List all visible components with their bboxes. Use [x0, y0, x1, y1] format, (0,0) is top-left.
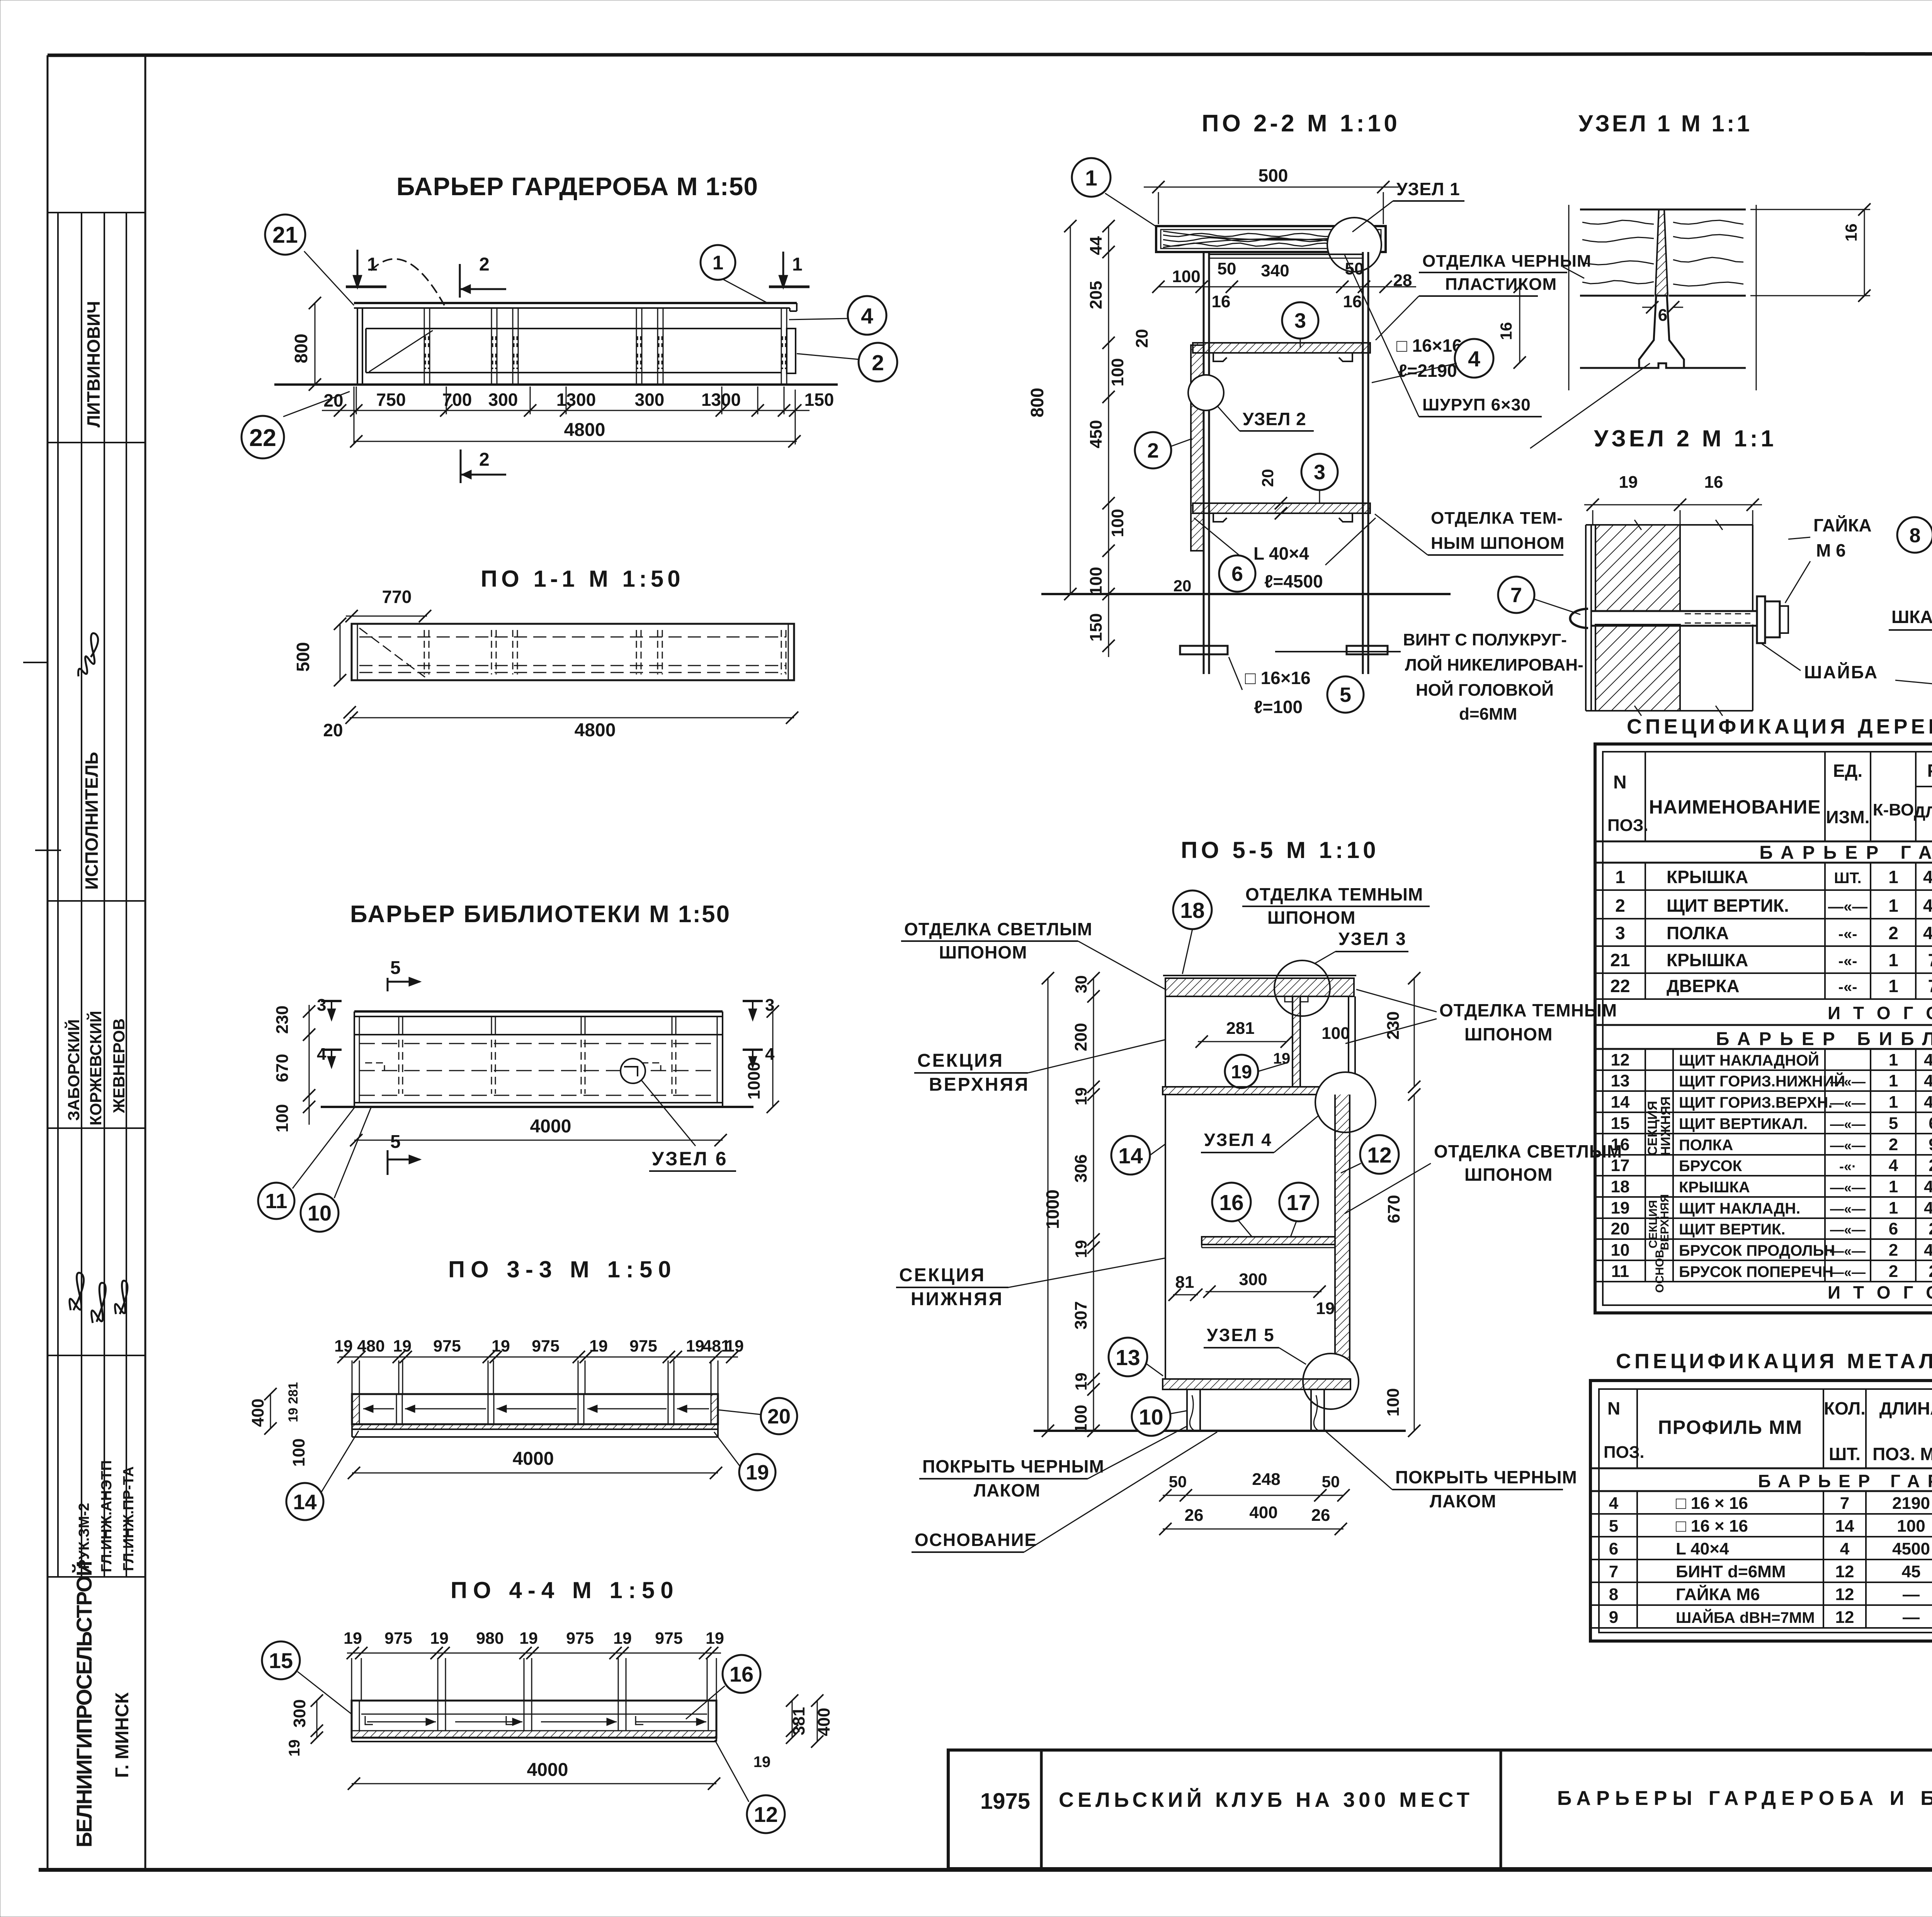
sidebar signature 1: [78, 633, 98, 676]
svg-text:300: 300: [290, 1699, 309, 1728]
svg-text:750: 750: [376, 390, 406, 410]
svg-text:ПО 2-2 М 1:10: ПО 2-2 М 1:10: [1202, 110, 1400, 137]
svg-text:100: 100: [1384, 1388, 1403, 1416]
svg-text:РАЗМЕРЫ В ММ: РАЗМЕРЫ В ММ: [1927, 761, 1932, 781]
svg-text:□ 16×16: □ 16×16: [1245, 668, 1311, 688]
svg-text:1: 1: [792, 254, 803, 275]
svg-text:—: —: [1903, 1608, 1920, 1627]
svg-text:800: 800: [1027, 388, 1047, 417]
biblio right dim 1000: [772, 1011, 774, 1107]
po22 counter grain: [1163, 233, 1379, 237]
po44 dim 4000: [352, 1783, 716, 1784]
svg-text:ВИНТ С ПОЛУКРУГ-: ВИНТ С ПОЛУКРУГ-: [1403, 630, 1567, 649]
po22 shelf 1: [1193, 343, 1370, 353]
svg-text:5: 5: [1609, 1517, 1618, 1536]
svg-text:10: 10: [1139, 1405, 1163, 1430]
svg-text:20: 20: [323, 720, 343, 740]
svg-text:2190: 2190: [1892, 1494, 1930, 1513]
po22 ground line: [1041, 593, 1451, 595]
svg-text:НИЖНЯЯ: НИЖНЯЯ: [911, 1289, 1003, 1309]
svg-text:7: 7: [1510, 584, 1522, 607]
svg-text:ЩИТ ГОРИЗ.НИЖНИЙ: ЩИТ ГОРИЗ.НИЖНИЙ: [1679, 1072, 1845, 1090]
title block divider after year: [1040, 1750, 1043, 1869]
svg-text:248: 248: [1929, 1262, 1932, 1281]
svg-text:1000: 1000: [745, 1062, 764, 1100]
svg-text:ИСПОЛНИТЕЛЬ: ИСПОЛНИТЕЛЬ: [82, 752, 102, 890]
po11 dashed posts: [424, 630, 425, 674]
po22 under counter dims: [1158, 286, 1386, 288]
biblio top band: [354, 1010, 723, 1013]
svg-text:СЕКЦИЯ: СЕКЦИЯ: [917, 1050, 1004, 1071]
svg-text:d=6ММ: d=6ММ: [1459, 705, 1517, 724]
svg-text:—«—: —«—: [1830, 1180, 1866, 1195]
svg-text:ЩИТ ВЕРТИК.: ЩИТ ВЕРТИК.: [1667, 896, 1789, 916]
svg-text:10: 10: [308, 1201, 332, 1225]
svg-text:1975: 1975: [980, 1789, 1030, 1814]
svg-text:18: 18: [1611, 1177, 1630, 1196]
garderoba section mark 2 bottom: [460, 449, 462, 483]
balloon 5 po22: [1327, 676, 1364, 713]
svg-text:400: 400: [248, 1399, 267, 1427]
svg-text:3: 3: [317, 996, 326, 1015]
svg-text:1: 1: [1889, 1199, 1898, 1217]
po55 bottom dims: [1163, 1495, 1344, 1496]
po33 extension lines: [398, 1360, 400, 1394]
uzel2 right chipboard: [1679, 525, 1681, 611]
svg-text:2: 2: [1147, 439, 1159, 462]
svg-text:975: 975: [433, 1337, 461, 1355]
svg-text:1: 1: [367, 254, 378, 275]
po11 bar outline: [352, 624, 794, 680]
svg-text:19 281: 19 281: [286, 1382, 301, 1422]
po33 posts: [396, 1394, 397, 1424]
garderoba vertical dim 800: [315, 303, 316, 385]
svg-text:4500: 4500: [1892, 1539, 1930, 1558]
svg-text:19: 19: [725, 1337, 744, 1355]
svg-text:18: 18: [1180, 898, 1204, 923]
svg-text:17: 17: [1286, 1190, 1311, 1215]
po33 end hatches: [352, 1394, 359, 1424]
wood table outer border: [1595, 744, 1932, 1313]
svg-text:16: 16: [1212, 292, 1231, 311]
svg-text:УЗЕЛ 4: УЗЕЛ 4: [1204, 1130, 1272, 1150]
svg-text:19: 19: [1072, 1240, 1090, 1258]
balloon 3 top po22: [1300, 339, 1301, 348]
uzel2 top dims: [1584, 504, 1762, 506]
svg-text:—«—: —«—: [1830, 1095, 1866, 1111]
svg-text:ГЛ.ИНЖ.ПР-ТА: ГЛ.ИНЖ.ПР-ТА: [121, 1466, 137, 1571]
svg-text:50: 50: [1218, 259, 1236, 278]
sidebar fold mark 1: [23, 662, 48, 663]
svg-text:N: N: [1607, 1398, 1620, 1418]
garderoba dim row 2 4800: [354, 441, 797, 442]
wood garderoba rows: [1595, 889, 1932, 891]
po44 brackets: [365, 1716, 373, 1725]
svg-text:КОРЖЕВСКИЙ: КОРЖЕВСКИЙ: [86, 1011, 105, 1125]
balloon 2 po22: [1171, 439, 1192, 446]
svg-text:УЗЕЛ 6: УЗЕЛ 6: [652, 1148, 728, 1170]
svg-text:СЕКЦИЯ: СЕКЦИЯ: [1645, 1101, 1660, 1156]
po22 dim 500: [1144, 187, 1399, 188]
biblio section 4 left: [321, 1049, 342, 1051]
svg-text:8: 8: [1609, 1585, 1618, 1604]
svg-text:—«—: —«—: [1830, 1264, 1866, 1280]
svg-text:4000: 4000: [1924, 1241, 1932, 1260]
svg-text:ПОЛКА: ПОЛКА: [1667, 923, 1729, 943]
po22 shelf 2: [1193, 503, 1370, 513]
po44 posts: [437, 1701, 439, 1731]
svg-text:50: 50: [1169, 1473, 1187, 1491]
svg-text:14: 14: [1835, 1517, 1854, 1536]
po55 middle box walls: [1165, 1095, 1166, 1379]
uzel1 counter bottom line: [1580, 295, 1654, 297]
svg-text:450: 450: [1087, 420, 1105, 448]
svg-text:340: 340: [1261, 261, 1289, 280]
svg-text:100: 100: [1108, 358, 1127, 386]
biblio ground line: [321, 1106, 753, 1108]
svg-text:4: 4: [1889, 1156, 1898, 1175]
svg-text:ЕД.: ЕД.: [1833, 761, 1862, 781]
svg-text:□ 16×16: □ 16×16: [1396, 335, 1462, 356]
svg-text:3: 3: [1314, 461, 1325, 484]
svg-text:21: 21: [1610, 950, 1630, 970]
svg-text:4050: 4050: [1923, 896, 1932, 916]
svg-text:9: 9: [1609, 1608, 1618, 1627]
svg-text:19: 19: [753, 1754, 771, 1771]
balloon 17 po55: [1279, 1183, 1318, 1221]
po22 left dim chain: [1108, 226, 1109, 594]
svg-text:И Т О Г О: И Т О Г О: [1828, 1282, 1932, 1302]
garderoba left wall: [357, 308, 358, 385]
svg-text:ОТДЕЛКА ТЕМНЫМ: ОТДЕЛКА ТЕМНЫМ: [1439, 1000, 1617, 1020]
balloon 18 po55: [1173, 890, 1212, 929]
svg-text:20: 20: [1133, 329, 1151, 348]
balloon 10 po55: [1132, 1397, 1170, 1436]
svg-text:4: 4: [317, 1045, 327, 1064]
po33 bottom board: [352, 1428, 718, 1430]
po11 dim 770: [346, 616, 427, 617]
sheet top border: [48, 53, 1932, 55]
svg-text:ЛОЙ НИКЕЛИРОВАН-: ЛОЙ НИКЕЛИРОВАН-: [1405, 655, 1583, 674]
svg-text:НЫМ ШПОНОМ: НЫМ ШПОНОМ: [1431, 534, 1565, 553]
svg-text:19: 19: [746, 1461, 769, 1484]
svg-text:670: 670: [273, 1054, 292, 1082]
svg-text:975: 975: [655, 1629, 683, 1648]
uzel3 ring po55: [1274, 960, 1330, 1016]
svg-text:СЕЛЬСКИЙ КЛУБ НА 300 МЕСТ: СЕЛЬСКИЙ КЛУБ НА 300 МЕСТ: [1059, 1788, 1473, 1811]
svg-text:14: 14: [1118, 1144, 1143, 1168]
sheet bottom border: [39, 1868, 1932, 1872]
svg-text:12: 12: [1835, 1562, 1854, 1581]
svg-text:13: 13: [1611, 1071, 1630, 1090]
biblio dim 4000: [354, 1140, 723, 1141]
svg-text:500: 500: [1259, 165, 1288, 186]
uzel1 bottom line: [1580, 367, 1638, 369]
svg-text:БРУСОК ПРОДОЛЬН: БРУСОК ПРОДОЛЬН: [1679, 1242, 1835, 1259]
balloon 16 po55: [1212, 1183, 1251, 1221]
balloon 22: [283, 392, 350, 417]
po55 legs: [1186, 1389, 1188, 1431]
po11 dim 4800: [350, 717, 794, 718]
svg-text:19: 19: [1316, 1299, 1335, 1318]
svg-text:БЕЛНИИГИПРОСЕЛЬСТРОЙ: БЕЛНИИГИПРОСЕЛЬСТРОЙ: [72, 1561, 96, 1847]
svg-text:100: 100: [1321, 1024, 1350, 1043]
po33 dim 4000: [352, 1473, 718, 1474]
po33 dim row: [339, 1357, 738, 1358]
po44 arrows: [367, 1721, 436, 1723]
balloon 4 right: [789, 318, 849, 320]
svg-text:ГАЙКА: ГАЙКА: [1813, 515, 1872, 535]
svg-text:12: 12: [1835, 1608, 1854, 1627]
balloon 15 po44: [298, 1672, 352, 1714]
balloon 14 po33: [321, 1431, 359, 1492]
svg-text:81: 81: [1175, 1273, 1194, 1292]
po22 dim16 right: [1519, 287, 1520, 363]
svg-text:—«—: —«—: [1828, 898, 1867, 915]
svg-text:ШАЙБА dВН=7ММ: ШАЙБА dВН=7ММ: [1676, 1609, 1815, 1626]
uzel4 ring po55: [1315, 1072, 1376, 1132]
svg-text:22: 22: [249, 424, 276, 451]
svg-text:13: 13: [1116, 1345, 1140, 1370]
svg-text:ПОЛКА: ПОЛКА: [1679, 1137, 1733, 1154]
svg-text:200: 200: [1071, 1023, 1090, 1051]
svg-text:500: 500: [293, 642, 313, 672]
balloon 14 po55: [1111, 1136, 1150, 1175]
po55 ground line: [1034, 1430, 1406, 1432]
po33 left dims: [270, 1394, 271, 1428]
garderoba panel diagonal leader: [369, 330, 433, 372]
balloon 13 po55: [1109, 1338, 1147, 1376]
svg-text:N: N: [1613, 772, 1627, 793]
svg-text:16: 16: [1611, 1135, 1630, 1154]
svg-text:14: 14: [293, 1490, 317, 1514]
po33 arrows: [363, 1408, 394, 1410]
svg-text:44: 44: [1087, 236, 1105, 255]
garderoba counter top: [354, 302, 797, 304]
svg-text:ℓ=100: ℓ=100: [1254, 697, 1303, 717]
sidebar signature 4: [115, 1280, 128, 1314]
svg-text:100: 100: [1087, 567, 1105, 595]
po44 hatched strip: [352, 1731, 716, 1738]
svg-text:ЩИТ ВЕРТИК.: ЩИТ ВЕРТИК.: [1679, 1221, 1786, 1238]
sidebar signature 2: [70, 1273, 84, 1310]
svg-text:ОТДЕЛКА ТЕМНЫМ: ОТДЕЛКА ТЕМНЫМ: [1245, 884, 1423, 904]
svg-text:4: 4: [861, 304, 873, 329]
balloon 21: [304, 251, 354, 305]
svg-text:—«—: —«—: [1830, 1137, 1866, 1153]
svg-text:ШПОНОМ: ШПОНОМ: [1464, 1024, 1553, 1044]
uzel2 bolt head: [1570, 609, 1588, 628]
svg-text:2: 2: [1615, 896, 1625, 916]
svg-text:УЗЕЛ 2: УЗЕЛ 2: [1243, 409, 1306, 429]
svg-text:БАРЬЕР БИБЛИОТЕКИ М 1:50: БАРЬЕР БИБЛИОТЕКИ М 1:50: [350, 901, 731, 928]
wood table header verticals: [1645, 752, 1646, 841]
svg-text:ОСНОВАНИЕ: ОСНОВАНИЕ: [915, 1530, 1037, 1550]
svg-text:19: 19: [344, 1629, 362, 1648]
svg-text:БАРЬЕР БИБЛИОТЕКИ: БАРЬЕР БИБЛИОТЕКИ: [1716, 1029, 1932, 1049]
svg-text:670: 670: [1384, 1195, 1403, 1223]
svg-text:ВЕРХНЯЯ: ВЕРХНЯЯ: [929, 1074, 1030, 1095]
svg-text:ГЛ.ИНЖ.АНЭТП: ГЛ.ИНЖ.АНЭТП: [99, 1460, 115, 1572]
title block divider after object: [1500, 1750, 1502, 1869]
sheet left inner border: [145, 55, 146, 1869]
biblio bottom lines: [354, 1102, 723, 1103]
svg-text:М 6: М 6: [1816, 540, 1846, 560]
biblio section 5 top: [387, 978, 389, 991]
svg-text:300: 300: [1239, 1270, 1267, 1289]
svg-text:100: 100: [1897, 1517, 1925, 1536]
svg-text:ПЛАСТИКОМ: ПЛАСТИКОМ: [1445, 275, 1557, 294]
svg-text:19: 19: [686, 1337, 704, 1355]
svg-text:УЗЕЛ 2 М 1:1: УЗЕЛ 2 М 1:1: [1594, 426, 1777, 451]
svg-text:□ 16 × 16: □ 16 × 16: [1676, 1494, 1748, 1513]
svg-text:НОЙ ГОЛОВКОЙ: НОЙ ГОЛОВКОЙ: [1416, 680, 1554, 700]
svg-text:1: 1: [713, 252, 723, 274]
svg-text:20: 20: [1259, 469, 1277, 487]
svg-text:970: 970: [1929, 1135, 1932, 1154]
svg-text:400: 400: [815, 1708, 833, 1736]
svg-text:4000: 4000: [1924, 1093, 1932, 1112]
svg-text:19: 19: [334, 1337, 353, 1355]
svg-text:—«—: —«—: [1830, 1243, 1866, 1259]
svg-text:СПЕЦИФИКАЦИЯ МЕТАЛЛИЧЕСКИХ И: СПЕЦИФИКАЦИЯ МЕТАЛЛИЧЕСКИХ ИЗДЕЛИЙ: [1616, 1349, 1932, 1373]
svg-text:150: 150: [1087, 613, 1105, 642]
garderoba dim extension lines: [356, 386, 357, 414]
svg-text:КОЛ.: КОЛ.: [1824, 1398, 1866, 1418]
garderoba posts: [424, 308, 425, 385]
uzel1 plastic wedge: [1655, 209, 1668, 296]
svg-text:30: 30: [1072, 975, 1090, 993]
svg-text:ВЕРХНЯЯ: ВЕРХНЯЯ: [1658, 1194, 1671, 1250]
svg-text:20: 20: [767, 1405, 791, 1428]
svg-text:ПО 5-5 М 1:10: ПО 5-5 М 1:10: [1181, 837, 1379, 863]
svg-text:ПО 4-4 М 1:50: ПО 4-4 М 1:50: [451, 1577, 679, 1603]
po11 dashed diagonal: [359, 628, 425, 677]
svg-text:ШПОНОМ: ШПОНОМ: [1464, 1165, 1553, 1185]
svg-text:19: 19: [492, 1337, 510, 1355]
svg-text:1: 1: [1085, 166, 1097, 191]
svg-text:ЛАКОМ: ЛАКОМ: [974, 1480, 1041, 1500]
svg-text:6: 6: [1231, 562, 1243, 586]
svg-text:□ 16 × 16: □ 16 × 16: [1676, 1517, 1748, 1536]
svg-text:19: 19: [589, 1337, 608, 1355]
svg-text:ШТ.: ШТ.: [1829, 1444, 1861, 1464]
svg-text:11: 11: [265, 1190, 287, 1213]
uzel2 nut: [1765, 601, 1780, 637]
svg-text:—«—: —«—: [1830, 1074, 1866, 1090]
svg-text:ПО 3-3 М 1:50: ПО 3-3 М 1:50: [448, 1256, 677, 1282]
svg-text:15: 15: [269, 1648, 293, 1673]
svg-text:-«-: -«-: [1838, 926, 1857, 943]
svg-text:2: 2: [479, 449, 490, 470]
svg-text:16: 16: [1842, 223, 1860, 242]
svg-text:19: 19: [393, 1337, 412, 1355]
svg-text:22: 22: [1610, 976, 1630, 996]
svg-text:1300: 1300: [556, 390, 596, 410]
svg-text:—«—: —«—: [1830, 1222, 1866, 1238]
po55 upper box: [1165, 996, 1166, 1087]
svg-text:19: 19: [519, 1629, 538, 1648]
svg-text:ОТДЕЛКА ЧЕРНЫМ: ОТДЕЛКА ЧЕРНЫМ: [1422, 252, 1592, 271]
svg-text:2: 2: [1889, 1135, 1898, 1154]
svg-text:-«·: -«·: [1839, 1158, 1856, 1174]
svg-text:14: 14: [1611, 1093, 1630, 1112]
svg-text:—«—: —«—: [1830, 1201, 1866, 1217]
svg-text:19: 19: [1273, 1050, 1291, 1067]
svg-text:ОТДЕЛКА СВЕТЛЫМ: ОТДЕЛКА СВЕТЛЫМ: [904, 919, 1092, 939]
garderoba section mark 2 top: [459, 264, 461, 298]
svg-text:17: 17: [1611, 1156, 1630, 1175]
svg-text:975: 975: [566, 1629, 594, 1648]
biblio dashed brackets: [365, 1063, 384, 1071]
svg-text:2: 2: [479, 254, 490, 275]
svg-text:1: 1: [1889, 1050, 1898, 1069]
uzel6 leader label: [641, 1080, 696, 1146]
balloon 1 top: [723, 279, 769, 304]
svg-text:300: 300: [635, 390, 665, 410]
garderoba break curve: [371, 259, 444, 305]
po11 vertical dim 500: [340, 624, 341, 680]
po55 inner shelf polka: [1202, 1237, 1335, 1245]
svg-text:26: 26: [1311, 1506, 1330, 1525]
svg-text:630: 630: [1929, 1114, 1932, 1133]
balloon 11 biblio: [293, 1108, 354, 1188]
balloon 19 po33: [714, 1432, 740, 1467]
po44 bottom edge: [352, 1741, 716, 1742]
po55 upper shelf: [1163, 1087, 1355, 1095]
svg-text:БАРЬЕРЫ ГАРДЕРОБА И БИБЛИОТЕКИ: БАРЬЕРЫ ГАРДЕРОБА И БИБЛИОТЕКИ: [1557, 1787, 1932, 1810]
svg-text:ШТ.: ШТ.: [1834, 870, 1861, 887]
svg-text:12: 12: [1835, 1585, 1854, 1604]
svg-text:100: 100: [1172, 267, 1200, 286]
balloon 10 biblio: [334, 1108, 371, 1198]
svg-text:И Т О Г О: И Т О Г О: [1828, 1003, 1932, 1023]
svg-text:12: 12: [1367, 1143, 1391, 1168]
garderoba inner panel: [366, 328, 781, 329]
svg-text:ОСНОВ.: ОСНОВ.: [1653, 1246, 1666, 1293]
svg-text:975: 975: [629, 1337, 657, 1355]
balloon 2 right: [797, 354, 859, 359]
svg-text:307: 307: [1071, 1301, 1090, 1330]
po44 inner line: [361, 1714, 707, 1715]
svg-text:5: 5: [390, 958, 401, 978]
svg-text:4000: 4000: [1924, 1177, 1932, 1196]
svg-text:СЕКЦИЯ: СЕКЦИЯ: [899, 1265, 986, 1285]
svg-text:980: 980: [476, 1629, 504, 1648]
svg-text:ℓ=2190: ℓ=2190: [1398, 361, 1457, 381]
svg-text:К-ВО: К-ВО: [1873, 800, 1914, 819]
svg-text:БАРЬЕР ГАРДЕРОБА: БАРЬЕР ГАРДЕРОБА: [1759, 843, 1932, 863]
svg-text:1: 1: [1888, 976, 1898, 996]
svg-text:КРЫШКА: КРЫШКА: [1667, 867, 1748, 887]
svg-text:5: 5: [1340, 683, 1351, 707]
po55 left dim chain: [1093, 978, 1094, 1431]
svg-text:4000: 4000: [513, 1449, 554, 1469]
svg-text:7: 7: [1840, 1494, 1849, 1513]
po55 cap stem: [1292, 996, 1293, 1087]
po44 extension lines: [351, 1658, 352, 1701]
po55 top cap: [1165, 978, 1354, 996]
po33 hatched strip: [352, 1424, 718, 1429]
svg-text:1: 1: [1889, 1177, 1898, 1196]
svg-text:50: 50: [1322, 1473, 1340, 1491]
po55 bottom shelf: [1163, 1379, 1350, 1389]
po22 side panel pos2: [1191, 345, 1204, 551]
svg-text:ШКАНТ d=8: ШКАНТ d=8: [1891, 607, 1932, 627]
svg-text:КРЫШКА: КРЫШКА: [1679, 1179, 1750, 1196]
svg-text:-«-: -«-: [1838, 953, 1857, 970]
uzel2 washer: [1757, 596, 1765, 643]
